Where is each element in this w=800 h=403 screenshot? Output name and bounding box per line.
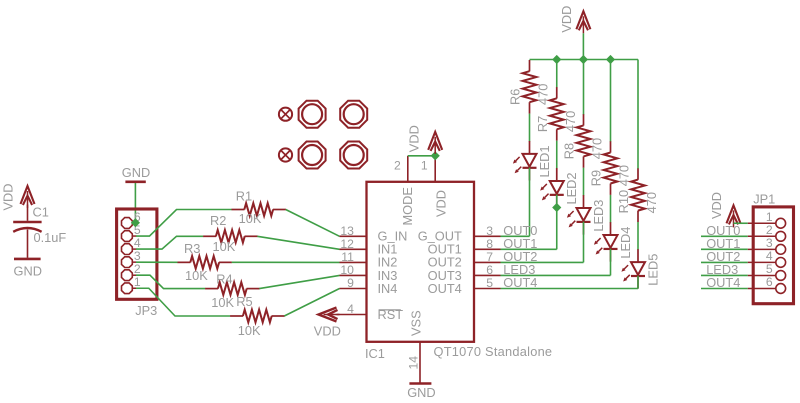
svg-text:470: 470 [644,192,659,213]
svg-text:3: 3 [486,224,493,238]
IC1 pin 9 stub (left) [340,288,367,290]
power VDD symbol (RST) [319,308,337,322]
svg-text:R3: R3 [184,241,200,256]
resistor R5 [230,315,243,317]
junction IC1 pin 1 [431,151,440,160]
IC1 pin 7 stub (right) [474,261,501,263]
wire LED5 to net [637,276,639,289]
JP3 pin 2 pad [122,270,133,281]
svg-text:R10: R10 [616,190,631,213]
wire net LED3 (IC side) [501,274,611,276]
svg-text:JP3: JP3 [135,303,157,318]
wire R1 to IC pin 13 [286,210,340,237]
svg-text:13: 13 [340,224,354,238]
resistor R4 [205,288,218,290]
IC1 pin 2 stub (top) [407,156,409,182]
wire VDD rail [530,59,639,61]
svg-text:VDD: VDD [709,192,724,219]
svg-text:IC1: IC1 [365,346,385,361]
svg-text:R9: R9 [589,170,604,186]
ground symbol (below C1) [14,258,41,261]
svg-text:R1: R1 [236,189,252,204]
wire JP3-1 to R5 [136,288,230,316]
svg-text:470: 470 [536,84,551,105]
svg-text:4: 4 [134,236,141,250]
wire MODE to VDD pin [408,155,435,157]
svg-text:LED4: LED4 [618,227,633,259]
wire net OUT2 (IC side) [501,261,584,263]
JP3 pin 1 pad [122,283,133,294]
svg-text:GND: GND [407,385,435,400]
junction rail b4 [606,55,615,64]
junction LED2 cathode [552,203,561,212]
svg-text:R7: R7 [535,116,550,132]
svg-text:8: 8 [486,237,493,251]
svg-text:OUT4: OUT4 [503,275,537,290]
JP1 pin 5 stub [748,274,776,276]
LED LED2 [556,168,558,181]
wire net OUT1 (IC side) [501,248,557,250]
wire rail to R9 [610,60,612,142]
JP3 pin 5 pad [122,231,133,242]
wire GND to JP3 pin 6 [134,183,136,223]
svg-text:OUT4: OUT4 [706,275,740,290]
svg-text:R6: R6 [508,89,523,105]
svg-text:14: 14 [406,356,420,370]
JP3 pin 6 stub [132,222,136,224]
IC1 pin 14 stub (bottom) [419,342,421,384]
wire net LED3 (JP1 side) [701,274,748,276]
power VDD symbol (C1 top) [21,186,35,204]
svg-text:RST: RST [378,307,404,322]
svg-text:4: 4 [347,302,354,316]
wire net OUT4 (IC side) [501,288,639,290]
wire R3 to IC pin 11 [232,261,340,263]
IC1 pin 11 stub (left) [340,261,367,263]
svg-text:VDD: VDD [314,324,341,339]
svg-text:470: 470 [617,165,632,186]
JP1 pin 2 stub [748,235,776,237]
svg-text:10K: 10K [238,323,261,338]
wire R2 to IC pin 12 [257,236,339,249]
svg-text:10: 10 [340,263,354,277]
svg-text:10K: 10K [213,239,236,254]
mount pad small 2 [279,148,292,161]
power VDD symbol (above IC1) [428,132,442,150]
svg-text:9: 9 [347,276,354,290]
svg-text:0.1uF: 0.1uF [34,230,67,245]
IC1 pin 13 stub (left) [340,235,367,237]
resistor R7 [556,87,558,98]
IC1 pin 4 stub (left) [340,314,367,316]
wire VDD to JP1 pin 1 [734,222,748,224]
wire R8 to LED3 [583,168,585,196]
JP3 pin 4 stub [132,248,136,250]
JP1 pin 1 stub [748,222,776,224]
svg-text:11: 11 [341,250,354,264]
resistor R1 [232,209,245,211]
resistor R10 [637,168,639,179]
wire LED1 to net [529,168,531,237]
connector JP1 outline [753,207,793,304]
IC1 pin 12 stub (left) [340,248,367,250]
wire LED3 to net [583,222,585,263]
svg-text:LED1: LED1 [537,145,552,177]
wire LED4 to net [610,249,612,276]
svg-text:QT1070 Standalone: QT1070 Standalone [434,344,553,359]
RST overline [379,309,401,311]
svg-text:470: 470 [590,138,605,159]
JP1 pin 4 pad [776,258,786,268]
IC1 pin 8 stub (right) [474,248,501,250]
IC1 pin 10 stub (left) [340,274,367,276]
JP1 pin 6 stub [748,288,776,290]
wire LED2 to net [556,195,558,250]
svg-text:JP1: JP1 [753,192,775,207]
wire R4 to IC pin 10 [259,275,339,288]
ground symbol (below IC1) [409,382,431,385]
connector JP3 outline [117,209,157,299]
svg-text:2: 2 [134,262,141,276]
svg-text:VSS: VSS [409,310,424,336]
wire VDD to C1 [27,205,29,221]
svg-text:R2: R2 [210,213,226,228]
IC1 pin 1 stub (top) [434,156,436,182]
wire rail to R7 [556,60,558,88]
svg-text:3: 3 [766,236,773,250]
svg-text:10K: 10K [211,295,234,310]
mount pad large 3 [299,142,326,169]
resistor R6 [529,60,531,71]
svg-text:10K: 10K [239,211,262,226]
wire R7 to LED2 [556,141,558,169]
JP1 pin 3 stub [748,248,776,250]
ground symbol (above JP3) [125,181,145,184]
svg-text:1: 1 [421,159,428,173]
svg-text:MODE: MODE [400,187,415,225]
wire net OUT2 (JP1 side) [701,261,748,263]
resistor R9 [610,141,612,152]
svg-text:VDD: VDD [1,183,16,210]
JP3 pin 3 pad [122,257,133,268]
svg-text:OUT4: OUT4 [428,281,462,296]
LED LED3 [583,195,585,208]
JP1 pin 1 pad [776,218,786,228]
svg-text:R5: R5 [236,294,252,309]
wire JP3-3 to R3 [136,261,178,263]
IC1 pin 3 stub (right) [474,235,501,237]
JP3 pin 4 pad [122,244,133,255]
resistor R2 [203,235,216,237]
LED LED4 [610,222,612,235]
wire R6 to LED1 [529,114,531,142]
svg-text:R8: R8 [562,143,577,159]
JP3 pin 3 stub [132,261,136,263]
svg-text:IN4: IN4 [378,281,398,296]
svg-text:2: 2 [394,159,401,173]
wire RST to VDD arrow [337,314,340,316]
JP1 pin 3 pad [776,244,786,254]
mount pad small 1 [279,108,292,121]
JP3 pin 2 stub [132,274,136,276]
svg-text:5: 5 [486,276,493,290]
JP1 pin 4 stub [748,261,776,263]
junction JP3 pin 6 [131,218,140,227]
svg-text:6: 6 [486,263,493,277]
wire JP3-2 to R4 [136,275,205,288]
svg-text:R4: R4 [216,272,232,287]
svg-text:5: 5 [766,262,773,276]
svg-text:10K: 10K [185,268,208,283]
resistor R8 [583,114,585,125]
IC1 pin 6 stub (right) [474,274,501,276]
svg-text:LED2: LED2 [564,173,579,205]
op-amp U1 body (IC1 QT1070) [367,182,475,342]
svg-text:7: 7 [486,250,493,264]
svg-text:3: 3 [134,249,141,263]
svg-text:GND: GND [122,165,150,180]
svg-text:6: 6 [766,275,773,289]
wire JP3-4 to R2 [136,236,203,249]
wire R5 to IC pin 9 [284,289,339,317]
power VDD symbol (JP1) [727,205,741,223]
mount pad large 4 [340,142,367,169]
mount pad large 2 [340,101,367,128]
svg-text:VDD: VDD [407,125,422,152]
LED LED1 [529,141,531,154]
JP1 pin 5 pad [776,271,786,281]
wire R9 to LED4 [610,195,612,223]
JP3 pin 6 pad [122,218,133,229]
svg-text:470: 470 [563,111,578,132]
JP3 pin 5 stub [132,235,136,237]
svg-text:VDD: VDD [434,190,449,217]
mount pad large 1 [299,101,326,128]
svg-text:LED5: LED5 [645,254,660,286]
svg-text:VDD: VDD [559,6,574,33]
wire net OUT4 (JP1 side) [701,288,748,290]
wire net OUT1 (JP1 side) [701,248,748,250]
svg-text:LED3: LED3 [591,200,606,232]
svg-text:12: 12 [340,237,354,251]
svg-text:C1: C1 [33,204,49,219]
svg-text:GND: GND [14,264,42,279]
wire rail to R10 [637,60,639,169]
wire JP3-5 to R1 [136,210,232,237]
svg-text:1: 1 [134,275,141,289]
junction rail b3 [579,55,588,64]
svg-text:2: 2 [766,223,773,237]
svg-text:4: 4 [766,249,773,263]
wire net OUT0 (IC side) [501,235,530,237]
power VDD symbol (top right) [576,11,590,29]
resistor R3 [178,261,191,263]
wire R10 to LED5 [637,222,639,250]
JP1 pin 6 pad [776,284,786,294]
JP3 pin 1 stub [132,287,136,289]
IC1 pin 5 stub (right) [474,288,501,290]
wire net OUT0 (JP1 side) [701,235,748,237]
JP1 pin 2 pad [776,231,786,241]
LED LED5 [637,249,639,262]
junction rail b2 [552,55,561,64]
wire VDD stem [582,33,584,59]
capacitor C1 [13,222,41,258]
svg-text:1: 1 [766,210,773,224]
wire rail to R8 [583,60,585,115]
